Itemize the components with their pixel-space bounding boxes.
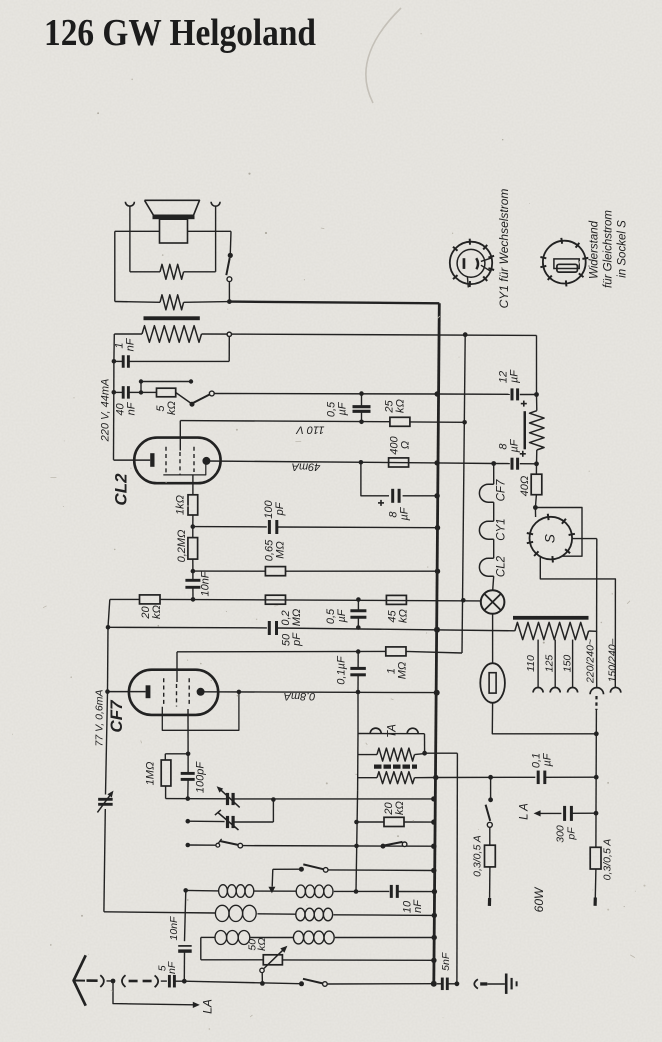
socket CY1 key lines — [481, 258, 492, 262]
wire — [489, 867, 491, 898]
node — [111, 979, 116, 984]
switch S7 pivot — [488, 797, 493, 802]
tube CL2 inner link — [163, 464, 206, 475]
capacitor 0,1uF b — [537, 771, 540, 785]
node — [594, 731, 599, 736]
capacitor 12uF — [511, 388, 514, 400]
node — [186, 752, 191, 757]
tube CL2 envelope — [134, 438, 220, 484]
wire — [161, 980, 167, 982]
wire — [493, 576, 494, 590]
wire — [261, 973, 263, 984]
resistor 0,2M b — [265, 595, 285, 604]
wire — [415, 777, 436, 779]
wire anode y692 — [201, 691, 437, 694]
svg-text:CY1 für Wechselstrom: CY1 für Wechselstrom — [497, 189, 511, 309]
svg-text:nF: nF — [125, 401, 137, 415]
tube CL2 cathode — [114, 459, 151, 461]
stub end — [593, 898, 596, 906]
speaker terminal cup right — [211, 202, 220, 207]
node — [191, 597, 196, 602]
coil L1a — [219, 885, 228, 898]
node on bus — [431, 844, 436, 849]
wire — [277, 526, 438, 529]
wire — [243, 845, 434, 848]
heater chain wire — [493, 464, 495, 485]
wire bottom — [184, 981, 299, 984]
socket S2 pins — [560, 238, 563, 244]
wire — [128, 391, 141, 393]
svg-text:pF: pF — [291, 632, 303, 647]
resistor 1M c — [161, 760, 171, 786]
wire — [188, 230, 232, 232]
tube CF7 feedback loop — [162, 692, 239, 730]
svg-text:CF7: CF7 — [107, 699, 126, 733]
resistor 0,2M a — [188, 538, 198, 560]
wire — [141, 391, 157, 393]
wire — [114, 391, 123, 393]
node on bus — [432, 913, 437, 918]
wire — [192, 571, 194, 580]
node — [182, 979, 187, 984]
wire — [358, 777, 377, 779]
wire y627 — [108, 626, 267, 629]
switch S4 lever — [384, 842, 403, 846]
switch S5 pivot — [299, 867, 304, 872]
wire — [160, 599, 481, 601]
wire dash thick — [87, 979, 98, 982]
node — [186, 796, 191, 801]
node on bus — [431, 958, 436, 963]
svg-text:10nF: 10nF — [168, 916, 180, 941]
pot body bar — [374, 764, 417, 768]
node on bus — [431, 981, 437, 987]
node on bus — [435, 525, 440, 530]
wire — [228, 282, 230, 302]
wire — [447, 983, 457, 985]
volume pot section 2 — [377, 772, 415, 784]
wire — [357, 734, 359, 791]
wire — [200, 937, 202, 959]
resistor 20k a — [140, 595, 161, 604]
capacitor 100pF b — [181, 772, 195, 775]
wire row4 — [201, 959, 263, 961]
wire — [129, 206, 131, 272]
coil L2a — [215, 905, 229, 921]
tap 125 — [554, 640, 556, 688]
node — [491, 461, 496, 466]
earth plug pin — [480, 982, 487, 985]
capacitor 1nF — [122, 355, 125, 368]
wire — [115, 301, 160, 304]
wire — [215, 206, 217, 272]
wire — [114, 231, 116, 301]
wire — [192, 559, 194, 571]
svg-text:nF: nF — [412, 899, 424, 913]
wire — [595, 734, 597, 813]
wire — [233, 798, 434, 800]
switch S1 contact — [227, 277, 232, 282]
transformer winding — [142, 326, 202, 343]
svg-text:kΩ: kΩ — [397, 609, 409, 623]
wire y869 — [273, 868, 300, 870]
wire — [520, 394, 537, 396]
node — [106, 625, 111, 630]
svg-text:kΩ: kΩ — [151, 605, 163, 619]
node — [461, 598, 466, 603]
wire — [357, 600, 359, 611]
node — [463, 332, 468, 337]
wire — [104, 809, 105, 912]
node — [359, 391, 364, 396]
wire y393 — [214, 393, 437, 396]
switch S5 contact — [323, 868, 328, 873]
wire — [589, 630, 597, 632]
svg-text:220 V, 44mA: 220 V, 44mA — [99, 379, 111, 443]
switch S5 lever — [303, 864, 323, 869]
antenna jack a — [100, 975, 104, 987]
node — [462, 420, 467, 425]
svg-text:µF: µF — [541, 752, 553, 766]
wire — [165, 786, 167, 799]
resistor 20k b — [384, 817, 404, 826]
wire y753 jump — [425, 752, 458, 754]
wire — [492, 703, 596, 734]
svg-text:kΩ: kΩ — [166, 401, 178, 415]
wire — [128, 360, 229, 362]
terminal cup 110 — [533, 688, 543, 693]
wire — [333, 914, 434, 917]
switch S2 pivot — [190, 402, 195, 407]
trimmer 1 arrow — [219, 789, 239, 808]
wire — [192, 515, 194, 527]
transformer core bar — [144, 316, 200, 320]
svg-text:110 V: 110 V — [295, 424, 325, 436]
bus line — [434, 303, 440, 983]
svg-text:für Gleichstrom: für Gleichstrom — [603, 210, 615, 288]
node — [594, 775, 599, 780]
wire — [358, 754, 377, 756]
capacitor 10nF c — [178, 945, 192, 947]
node on bus — [434, 460, 439, 465]
wire — [115, 230, 160, 232]
node — [139, 379, 143, 383]
TA cup b — [407, 728, 418, 733]
wire thick to bus — [229, 302, 439, 304]
svg-text:µF: µF — [508, 438, 520, 452]
socket CY1 cathode arc — [476, 258, 478, 269]
resistor 0,65M — [265, 567, 285, 576]
node on bus — [432, 935, 437, 940]
TA cup a — [370, 728, 381, 733]
decorative specks — [421, 33, 422, 34]
coil L3a — [215, 931, 227, 945]
svg-text:49mA: 49mA — [292, 461, 321, 473]
svg-text:µF: µF — [336, 608, 348, 622]
switch S2 contact — [209, 391, 214, 396]
terminal cup 150/240 — [610, 687, 620, 692]
tap 110 — [537, 640, 539, 688]
wire — [571, 812, 596, 814]
switch S3 contact b — [238, 843, 243, 848]
resistor 400 — [389, 458, 409, 467]
node — [354, 820, 359, 825]
svg-text:S: S — [542, 534, 557, 543]
wire y777 — [436, 776, 536, 778]
wire — [595, 813, 597, 847]
earth jack — [474, 979, 478, 988]
wire — [184, 301, 230, 304]
node — [139, 390, 143, 394]
wire — [596, 631, 598, 687]
node — [534, 392, 539, 397]
wire — [113, 334, 115, 361]
wire — [187, 779, 189, 798]
wire — [192, 476, 194, 495]
mains transformer core — [513, 616, 589, 620]
wire — [492, 614, 494, 663]
svg-text:110: 110 — [525, 655, 537, 672]
svg-text:MΩ: MΩ — [396, 662, 408, 680]
pot wiper contact — [260, 968, 264, 972]
node — [359, 460, 364, 465]
svg-text:Widerstand: Widerstand — [589, 220, 601, 279]
svg-text:150/240–: 150/240– — [606, 638, 618, 682]
wire — [277, 628, 515, 631]
tube CF7 cathode — [108, 691, 146, 693]
svg-text:CF7: CF7 — [496, 479, 508, 501]
svg-text:pF: pF — [274, 501, 286, 516]
node — [260, 981, 265, 986]
capacitor 8uF b — [511, 458, 514, 470]
wire y334 — [202, 334, 537, 335]
wire — [594, 869, 597, 898]
switch S6 lever — [303, 979, 323, 984]
svg-text:µF: µF — [398, 506, 410, 520]
switch S6 contact — [323, 982, 328, 987]
wire — [398, 891, 435, 893]
switch S3 contact a — [216, 843, 220, 847]
capacitor 8uF a — [391, 489, 394, 503]
node — [533, 505, 538, 510]
svg-text:Ω: Ω — [399, 441, 411, 449]
switch S7 contact — [487, 822, 492, 827]
wire stub — [140, 382, 142, 393]
wire y421 — [180, 421, 390, 422]
svg-text:220/240~: 220/240~ — [584, 639, 596, 684]
tube CF7 grids — [163, 678, 165, 706]
node — [186, 843, 191, 848]
wire — [257, 913, 295, 915]
node ring — [227, 332, 231, 336]
coil L1b — [296, 885, 305, 898]
node — [534, 461, 539, 466]
wire — [233, 821, 273, 823]
node — [359, 420, 364, 425]
wire — [534, 508, 536, 518]
svg-text:1kΩ: 1kΩ — [174, 495, 186, 515]
heater CF7 CY1 CL2 loops — [479, 484, 493, 502]
node on bus — [433, 775, 438, 780]
wire — [424, 734, 426, 754]
resistor R2 — [160, 295, 184, 310]
wire — [328, 869, 434, 872]
wire — [187, 754, 189, 774]
wire dash — [129, 980, 138, 983]
node — [594, 811, 599, 816]
filter choke core — [524, 411, 527, 449]
svg-text:5nF: 5nF — [440, 952, 452, 971]
capacitor 300pF — [563, 806, 566, 821]
trimmer 2 arm — [218, 813, 239, 831]
svg-text:0,8mA: 0,8mA — [284, 690, 316, 702]
svg-text:LA: LA — [201, 999, 215, 1014]
capacitor 5nF b — [441, 978, 444, 991]
node on bus — [435, 569, 440, 574]
wire — [184, 271, 216, 273]
wire y845 — [188, 844, 216, 846]
node — [186, 819, 191, 824]
svg-text:kΩ: kΩ — [394, 801, 406, 815]
wire — [107, 980, 114, 982]
label 8uF a — [378, 502, 384, 504]
node on bus — [432, 889, 437, 894]
wire — [113, 392, 115, 460]
capacitor 100pF a — [268, 520, 271, 534]
speaker magnet — [160, 219, 188, 243]
wire — [357, 652, 359, 669]
decorative — [366, 8, 401, 103]
svg-text:nF: nF — [124, 337, 136, 351]
wire — [183, 951, 185, 981]
wire — [361, 462, 389, 496]
capacitor 0,5uF — [353, 405, 371, 408]
wire — [114, 333, 142, 335]
capacitor 50pF — [268, 621, 271, 635]
tap arrow — [268, 887, 275, 894]
fuse Si1 element — [489, 673, 496, 693]
node — [356, 690, 361, 695]
svg-text:10nF: 10nF — [199, 570, 211, 596]
node — [189, 379, 193, 383]
speaker terminal cup left — [125, 202, 134, 206]
wire anode y462 — [206, 461, 437, 463]
wire — [596, 539, 598, 632]
svg-text:77 V, 0,6mA: 77 V, 0,6mA — [93, 689, 105, 746]
node — [422, 751, 427, 756]
antenna plug b — [122, 975, 126, 987]
fuse Si3 — [590, 847, 601, 869]
resistor 1k — [188, 495, 198, 515]
wire — [410, 421, 465, 423]
svg-text:40Ω: 40Ω — [519, 476, 531, 497]
fuse Si2 — [485, 845, 496, 867]
svg-text:0,3/0,5 A: 0,3/0,5 A — [601, 839, 613, 881]
wire — [572, 538, 597, 540]
tube CF7 anode — [197, 688, 205, 696]
node — [105, 689, 110, 694]
svg-text:1MΩ: 1MΩ — [144, 762, 156, 786]
trimmer cap left — [98, 798, 113, 801]
speaker LS cone — [145, 200, 200, 215]
wire — [250, 937, 293, 939]
svg-text:pF: pF — [565, 827, 577, 841]
wire — [114, 360, 123, 362]
resistor 5k — [157, 388, 176, 397]
capacitor 10nF a — [185, 579, 200, 582]
svg-text:125: 125 — [543, 655, 555, 673]
wire — [225, 798, 227, 800]
socket CY1 outer — [450, 242, 492, 284]
wire y754 — [165, 753, 188, 755]
svg-text:CL2: CL2 — [496, 555, 508, 577]
wire — [130, 271, 160, 273]
svg-text:60W: 60W — [532, 886, 546, 912]
wire — [357, 692, 359, 734]
svg-text:µF: µF — [336, 401, 348, 415]
wire LA branch — [113, 981, 193, 1005]
svg-text:MΩ: MΩ — [291, 609, 303, 627]
wire — [404, 821, 434, 823]
node — [227, 299, 232, 304]
node on bus — [434, 493, 439, 498]
node — [183, 888, 188, 893]
wire — [272, 800, 274, 823]
wire — [282, 959, 434, 961]
wire — [335, 937, 434, 939]
svg-text:0,1µF: 0,1µF — [335, 655, 347, 685]
wire y798 — [166, 798, 226, 800]
tube CL2 grid lead — [179, 421, 181, 451]
resistor 45k — [386, 595, 406, 604]
svg-text:0,3/0,5 A: 0,3/0,5 A — [471, 835, 483, 877]
wire 463line — [462, 335, 465, 653]
node — [354, 844, 359, 849]
wire — [535, 495, 536, 508]
wire — [254, 890, 296, 892]
wire — [437, 462, 494, 465]
wire — [107, 627, 110, 691]
wire — [489, 827, 491, 845]
capacitor 0,5uF b — [350, 609, 366, 612]
switch S4 contact — [402, 842, 407, 847]
node — [271, 797, 276, 802]
wire socket bottom — [540, 557, 615, 688]
tube CF7 envelope — [129, 670, 218, 715]
svg-text:CY1: CY1 — [496, 518, 508, 540]
socket S2 resistor b — [557, 264, 578, 272]
node on bus — [435, 391, 440, 396]
socket S2 resistor a — [554, 259, 579, 269]
wire row2 — [104, 912, 215, 913]
node — [191, 524, 196, 529]
tap 150 — [572, 640, 574, 688]
svg-text:in Sockel S: in Sockel S — [617, 220, 629, 278]
wire — [106, 692, 108, 795]
svg-text:kΩ: kΩ — [394, 399, 406, 413]
socket CY1 pins — [469, 239, 471, 245]
wire — [187, 709, 189, 754]
LA arrow right — [534, 810, 541, 816]
wire — [520, 463, 537, 465]
svg-text:0,2MΩ: 0,2MΩ — [176, 530, 188, 563]
svg-text:TA: TA — [387, 724, 399, 738]
wire row1 — [186, 889, 219, 892]
switch S3 lever — [220, 841, 238, 845]
node — [455, 981, 460, 986]
socket S ring — [530, 517, 573, 560]
socket S pins — [547, 514, 550, 520]
